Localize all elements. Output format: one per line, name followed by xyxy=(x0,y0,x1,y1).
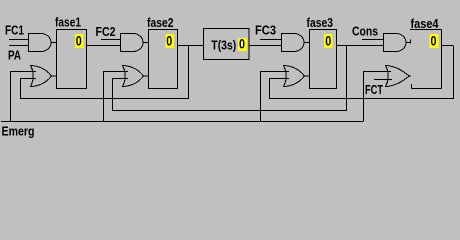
svg-text:T(3s): T(3s) xyxy=(211,38,236,53)
svg-text:FC2: FC2 xyxy=(96,24,116,39)
wire timer output to A3 xyxy=(249,45,281,47)
state indicator 0 of fase3 xyxy=(324,33,333,49)
wire Emerg to O4 top input xyxy=(364,72,392,122)
wire Emerg to O1 top input xyxy=(11,72,37,122)
svg-text:0: 0 xyxy=(431,33,437,49)
svg-text:0: 0 xyxy=(325,33,331,49)
wire PA input xyxy=(9,45,28,47)
label fase4 xyxy=(411,16,440,31)
svg-text:0: 0 xyxy=(166,33,172,49)
wire fase3-feedback to O2 bottom input xyxy=(113,46,347,111)
svg-text:0: 0 xyxy=(76,33,82,49)
state indicator 0 of fase2 xyxy=(166,33,175,49)
svg-text:FCT: FCT xyxy=(365,82,383,97)
wire fase1 output to A2 xyxy=(87,45,121,47)
wire O4 output to fase4 R xyxy=(409,75,411,77)
svg-text:Emerg: Emerg xyxy=(2,124,35,139)
wire A1 output to fase1 S xyxy=(51,42,56,44)
svg-text:fase3: fase3 xyxy=(307,15,334,30)
and-gate A1 (FC1 AND PA) xyxy=(29,34,52,52)
and-gate A3 (FC3 AND T) xyxy=(282,34,305,52)
svg-text:fase2: fase2 xyxy=(147,15,174,30)
block fase2 (RS memory) xyxy=(149,30,178,89)
wire Emerg rail xyxy=(1,121,364,123)
or-gate O4 (fase4 reset) xyxy=(386,66,410,87)
label Emerg xyxy=(2,124,35,139)
state indicator 0 of timer xyxy=(238,36,247,52)
state indicator 0 of fase4 xyxy=(430,33,439,49)
node FCT tick xyxy=(387,80,389,84)
wire fase4 output feedback xyxy=(442,45,454,47)
block fase4 (RS memory, open left edge) xyxy=(410,30,442,89)
label PA xyxy=(8,48,21,63)
state indicator 0 of fase1 xyxy=(75,33,84,49)
wire O1 output to fase1 R xyxy=(52,75,57,77)
svg-text:fase4: fase4 xyxy=(411,16,440,31)
svg-text:Cons: Cons xyxy=(352,24,378,39)
wire A3 output to fase3 S xyxy=(304,42,309,44)
svg-text:PA: PA xyxy=(8,48,21,63)
or-gate O1 (fase1 reset) xyxy=(31,66,52,87)
label fase2 xyxy=(147,15,174,30)
label FC1 xyxy=(5,23,24,38)
wire FC3 input xyxy=(260,39,281,41)
label fase1 xyxy=(55,15,81,30)
wire fase2-feedback to O1 bottom input xyxy=(21,46,189,99)
wire FC2 input xyxy=(101,39,120,41)
wire fase4-feedback to O3 bottom input xyxy=(270,46,454,99)
block fase3 (RS memory) xyxy=(310,30,337,89)
wire O3 output to fase3 R xyxy=(305,75,310,77)
svg-text:0: 0 xyxy=(239,36,245,52)
svg-text:FC3: FC3 xyxy=(255,23,276,38)
wire fase2 output to timer T xyxy=(178,45,204,47)
and-gate A2 (FC2 AND fase1) xyxy=(121,34,144,52)
and-gate A4 (Cons AND fase3) xyxy=(384,34,407,52)
wire A4 output to fase4 S xyxy=(406,42,411,44)
timer block T(3s) xyxy=(204,29,250,60)
node fase4 S-stub xyxy=(410,40,412,44)
or-gate O3 (fase3 reset) xyxy=(284,66,305,87)
wire Emerg to O3 top input xyxy=(261,72,290,122)
wire O2 output to fase2 R xyxy=(144,75,149,77)
label T(3s) xyxy=(211,38,236,53)
wire Cons input xyxy=(362,39,383,41)
label FC2 xyxy=(96,24,116,39)
label FCT xyxy=(365,82,383,97)
svg-text:FC1: FC1 xyxy=(5,23,24,38)
or-gate O2 (fase2 reset) xyxy=(123,66,144,87)
label Cons xyxy=(352,24,378,39)
wire A2 output to fase2 S xyxy=(143,42,148,44)
wire FCT input to O4 bottom xyxy=(374,79,392,81)
svg-text:fase1: fase1 xyxy=(55,15,81,30)
wire Emerg to O2 top input xyxy=(104,72,129,122)
wire fase3 output to A4 xyxy=(337,45,384,47)
label FC3 xyxy=(255,23,276,38)
block fase1 (RS memory) xyxy=(57,30,87,89)
wire FC1 input xyxy=(9,39,28,41)
label fase3 xyxy=(307,15,334,30)
